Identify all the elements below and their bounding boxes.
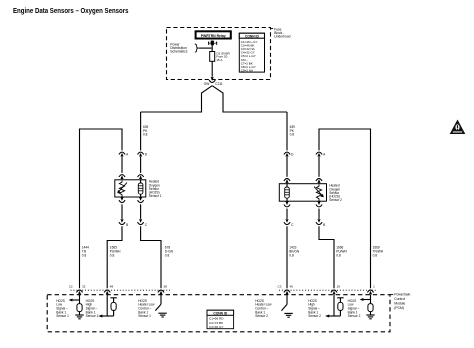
svg-text:C9=2 NA: C9=2 NA — [241, 68, 253, 72]
svg-text:Sensor 1: Sensor 1 — [86, 314, 99, 318]
svg-text:Sensor 1: Sensor 1 — [149, 194, 162, 198]
svg-text:Sensor 2: Sensor 2 — [329, 198, 342, 202]
svg-text:CONN ID: CONN ID — [213, 311, 228, 315]
svg-text:PWRTRN Relay: PWRTRN Relay — [201, 34, 226, 38]
svg-text:CONN ID: CONN ID — [245, 34, 260, 38]
svg-text:C3=46 GY: C3=46 GY — [209, 325, 224, 329]
svg-text:19: 19 — [337, 285, 341, 289]
svg-text:Sensor 1: Sensor 1 — [138, 314, 151, 318]
svg-text:Engine Data Sensors – Oxygen S: Engine Data Sensors – Oxygen Sensors — [13, 6, 129, 15]
svg-text:45: 45 — [290, 285, 294, 289]
svg-text:0.8: 0.8 — [290, 133, 295, 137]
svg-text:0.8: 0.8 — [82, 253, 87, 257]
svg-text:B: B — [126, 223, 128, 227]
svg-text:Schematics: Schematics — [170, 50, 187, 54]
svg-text:15 A: 15 A — [216, 58, 223, 62]
svg-text:Module: Module — [394, 301, 405, 305]
svg-text:0.8: 0.8 — [289, 253, 294, 257]
svg-text:Underhood: Underhood — [274, 34, 290, 38]
svg-text:Sensor 2: Sensor 2 — [308, 314, 321, 318]
svg-text:0.8: 0.8 — [143, 133, 148, 137]
svg-text:0.8: 0.8 — [373, 253, 378, 257]
svg-text:C211: C211 — [215, 82, 223, 86]
svg-text:C3: C3 — [278, 285, 282, 289]
svg-text:(PCM): (PCM) — [394, 306, 404, 310]
svg-text:0.8: 0.8 — [165, 253, 170, 257]
svg-text:B: B — [323, 223, 325, 227]
svg-text:58: 58 — [164, 285, 168, 289]
svg-text:C2: C2 — [69, 285, 73, 289]
svg-text:Powertrain: Powertrain — [394, 293, 410, 297]
svg-text:OW: OW — [204, 82, 210, 86]
svg-text:0.8: 0.8 — [110, 253, 115, 257]
svg-text:32: 32 — [82, 285, 86, 289]
svg-text:Sensor 2: Sensor 2 — [255, 314, 268, 318]
svg-text:48: 48 — [110, 285, 114, 289]
svg-text:Sensor 2: Sensor 2 — [348, 314, 361, 318]
svg-text:0.8: 0.8 — [336, 253, 341, 257]
svg-text:Control: Control — [394, 297, 405, 301]
svg-text:Sensor 1: Sensor 1 — [56, 314, 69, 318]
